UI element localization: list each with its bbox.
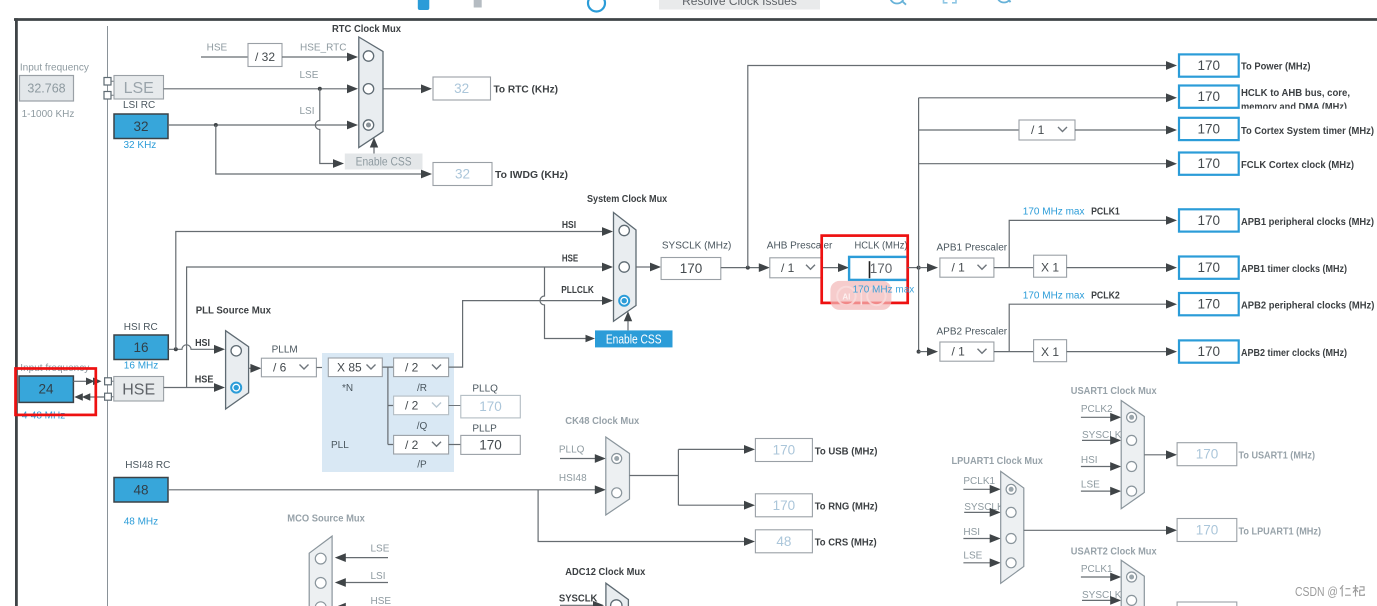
wire: HSI48 branch to CRS xyxy=(538,490,745,542)
svg-text:LSI: LSI xyxy=(300,106,315,117)
svg-text:HSE: HSE xyxy=(195,374,214,385)
output box: APB1 peripheral clocks xyxy=(1179,209,1239,231)
svg-text:HCLK to AHB bus, core,: HCLK to AHB bus, core, xyxy=(1241,88,1350,99)
svg-text:HSI: HSI xyxy=(562,220,576,231)
svg-text:PLLCLK: PLLCLK xyxy=(561,285,594,296)
wire: HSE pin to 24 box (in) xyxy=(88,396,105,398)
svg-text:170: 170 xyxy=(1198,156,1221,171)
svg-text:/ 6: / 6 xyxy=(273,361,287,375)
HCLK distribution riser xyxy=(918,98,920,352)
node: HCLK distribution xyxy=(917,266,921,270)
LSE pin square 1 xyxy=(104,78,111,86)
svg-text:To IWDG (KHz): To IWDG (KHz) xyxy=(495,170,568,181)
wire: HSI48 to CK48 mux xyxy=(168,489,596,491)
output box: To Power xyxy=(1179,54,1239,76)
svg-text:PLL Source Mux: PLL Source Mux xyxy=(196,306,272,317)
toolbar icon: zoom-out magnifier (cut off) xyxy=(890,0,904,4)
wire: LSI stub into MCO xyxy=(344,582,388,584)
svg-text:170: 170 xyxy=(773,498,796,513)
svg-text:SYSCLK (MHz): SYSCLK (MHz) xyxy=(662,241,731,252)
radio: LSI (selected, gray) xyxy=(363,120,373,130)
svg-text:/P: /P xyxy=(417,460,427,471)
wire: SYSCLK stub xyxy=(1082,439,1112,441)
svg-text:/ 1: / 1 xyxy=(781,261,795,275)
wire: APB2 out to X1 and PCLK2 branch xyxy=(994,304,1167,351)
wire: Enable CSS up into mux xyxy=(627,319,629,330)
node: SYSCLK distribution xyxy=(746,266,750,270)
mux: RTC Clock Mux xyxy=(359,37,383,148)
wire: HSI stub xyxy=(1081,466,1112,468)
svg-text:/ 2: / 2 xyxy=(405,399,419,413)
svg-text:PLLP: PLLP xyxy=(472,424,497,435)
input box: 24 xyxy=(19,376,73,402)
svg-text:HSE: HSE xyxy=(562,254,579,265)
wire: PLLM to *N xyxy=(316,367,328,369)
svg-text:48: 48 xyxy=(133,483,148,498)
mux: USART2 Clock Mux xyxy=(1121,560,1144,606)
oscillator LSI 32 xyxy=(114,114,168,139)
svg-text:HSI48 RC: HSI48 RC xyxy=(125,460,170,471)
svg-text:To RTC (KHz): To RTC (KHz) xyxy=(494,85,559,96)
svg-text:PLLQ: PLLQ xyxy=(472,384,498,395)
wire: PLLQ stub to CK48 mux xyxy=(560,458,596,460)
svg-text:170 MHz max: 170 MHz max xyxy=(1023,291,1085,302)
output box: To Cortex System timer xyxy=(1179,118,1239,140)
radio: HSE (off) xyxy=(619,262,629,272)
HSE pin square 1 xyxy=(105,378,112,385)
svg-text:LSE: LSE xyxy=(371,544,390,555)
radio: PCLK1 (selected, gray) xyxy=(1127,572,1137,582)
svg-text:APB2 peripheral clocks (MHz): APB2 peripheral clocks (MHz) xyxy=(1241,301,1374,312)
wire: CSS tap from HSE wire (hop over PLLCLK) xyxy=(540,267,587,339)
oscillator HSE xyxy=(114,377,164,402)
svg-text:24: 24 xyxy=(38,382,54,397)
svg-text:To LPUART1 (MHz): To LPUART1 (MHz) xyxy=(1239,527,1322,538)
output box: APB1 timer clocks xyxy=(1179,257,1239,279)
red issue rectangle (HSE input) xyxy=(16,369,96,415)
wire: HCLK to APB prescalers xyxy=(908,267,919,269)
wire: LSE to RTC mux xyxy=(164,88,349,90)
wire: AHB to HCLK input xyxy=(822,267,839,269)
svg-text:APB1 Prescaler: APB1 Prescaler xyxy=(937,243,1008,254)
svg-text:32.768: 32.768 xyxy=(27,82,65,96)
svg-text:170: 170 xyxy=(773,443,796,458)
output box: To USART1 xyxy=(1177,443,1237,466)
wire: USART1 mux output xyxy=(1144,454,1167,456)
mux: CK48 Clock Mux xyxy=(606,437,630,515)
svg-text:PLLQ: PLLQ xyxy=(559,445,585,456)
radio: LSE (off) xyxy=(1127,486,1137,496)
output box: PLLP xyxy=(461,435,521,454)
dropdown: APB1 /1 xyxy=(940,258,994,277)
svg-text:HSI: HSI xyxy=(195,338,210,349)
oscillator HSI48 xyxy=(114,478,168,503)
svg-text:To Cortex System timer (MHz): To Cortex System timer (MHz) xyxy=(1241,126,1374,137)
svg-text:HSI: HSI xyxy=(1081,455,1098,466)
svg-text:APB1 peripheral clocks (MHz): APB1 peripheral clocks (MHz) xyxy=(1241,217,1374,228)
svg-text:1-1000 KHz: 1-1000 KHz xyxy=(22,109,75,120)
svg-text:170: 170 xyxy=(1198,344,1221,359)
wire: SYSCLK stub into ADC12 xyxy=(560,604,594,606)
input box: 32.768 xyxy=(20,76,74,102)
svg-text:170: 170 xyxy=(1196,447,1219,462)
svg-text:PLL: PLL xyxy=(331,440,349,451)
wire: LSE branch down to Enable CSS (hop over LSI) xyxy=(315,89,333,164)
wire: HSI riser to System Clock Mux xyxy=(176,232,603,350)
radio: SYSCLK (off) xyxy=(1127,435,1137,445)
toolbar icon: fit-to-window (cut off) xyxy=(944,0,957,3)
svg-text:Enable CSS: Enable CSS xyxy=(356,155,412,169)
output box: To RNG xyxy=(755,494,812,517)
wire: RTC mux output to To RTC xyxy=(383,88,422,90)
svg-text:16: 16 xyxy=(133,340,148,355)
svg-text:Resolve Clock Issues: Resolve Clock Issues xyxy=(682,0,797,8)
svg-text:APB2 Prescaler: APB2 Prescaler xyxy=(937,327,1008,338)
svg-text:PCLK2: PCLK2 xyxy=(1081,404,1113,415)
svg-text:LSI: LSI xyxy=(371,571,386,582)
radio: SYSCLK (off) xyxy=(1006,507,1016,517)
svg-text:/ 1: / 1 xyxy=(952,261,966,275)
svg-text:/ 2: / 2 xyxy=(405,438,419,452)
output box: To USB xyxy=(755,439,812,462)
wire: riser to To Power xyxy=(748,66,1167,268)
wire: X1 to APB1 timer box xyxy=(1067,267,1167,269)
svg-text:X 1: X 1 xyxy=(1041,261,1059,275)
svg-text:LSE: LSE xyxy=(963,550,982,561)
PLL block background xyxy=(322,353,454,472)
svg-text:LSE: LSE xyxy=(1081,480,1100,491)
wire: HSI stub xyxy=(963,538,991,540)
button: Enable CSS (RTC, gray) xyxy=(345,154,423,170)
svg-text:To USART1 (MHz): To USART1 (MHz) xyxy=(1239,451,1316,462)
svg-text:170: 170 xyxy=(1198,58,1221,73)
svg-text:170: 170 xyxy=(1196,523,1219,538)
frame top border xyxy=(14,18,1377,21)
frame left border xyxy=(15,18,18,606)
svg-text:32: 32 xyxy=(133,119,148,134)
svg-text:PCLK1: PCLK1 xyxy=(1081,564,1113,575)
svg-text:AHB Prescaler: AHB Prescaler xyxy=(767,241,833,252)
svg-text:/ 32: / 32 xyxy=(255,50,275,64)
node: HSI branch xyxy=(174,347,178,351)
radio: PLLCLK (selected, blue) xyxy=(619,296,629,306)
red issue rectangle (HCLK) xyxy=(822,236,908,303)
radio: SYSCLK (off) xyxy=(1127,595,1137,605)
svg-text:170: 170 xyxy=(479,399,502,414)
oscillator LSE xyxy=(114,76,164,100)
input box: HCLK (active edit) xyxy=(849,257,908,280)
wire: SYSCLK stub xyxy=(964,511,991,513)
dropdown: *N X85 xyxy=(328,358,382,377)
svg-text:PLLM: PLLM xyxy=(272,345,298,356)
text cursor in HCLK box xyxy=(869,261,871,278)
svg-text:HSE_RTC: HSE_RTC xyxy=(300,43,347,54)
svg-text:HSI: HSI xyxy=(963,527,980,538)
svg-text:170 MHz max: 170 MHz max xyxy=(1023,207,1085,218)
svg-text:Input frequency: Input frequency xyxy=(20,63,89,74)
svg-text:PCLK1: PCLK1 xyxy=(1091,207,1120,218)
node: APB2 tap xyxy=(917,350,921,354)
svg-text:170: 170 xyxy=(1198,213,1221,228)
wire: PCLK1 stub xyxy=(963,488,991,490)
wire: LSE stub xyxy=(963,562,991,564)
radio: HSE_RTC (off) xyxy=(363,51,373,61)
svg-text:16 MHz: 16 MHz xyxy=(124,361,158,372)
toolbar icon: gray tool (cut off) xyxy=(474,0,482,8)
dropdown: /P xyxy=(394,435,449,454)
wire: PCLK1 stub xyxy=(1081,576,1112,578)
svg-text:System Clock Mux: System Clock Mux xyxy=(587,194,668,205)
svg-text:AI: AI xyxy=(842,293,850,302)
svg-text:32: 32 xyxy=(455,167,470,182)
mux: USART1 Clock Mux xyxy=(1121,401,1144,509)
svg-text:170: 170 xyxy=(1198,297,1221,312)
svg-text:USART1 Clock Mux: USART1 Clock Mux xyxy=(1071,386,1157,397)
output box: SYSCLK xyxy=(661,258,721,280)
dropdown: /Q (disabled) xyxy=(394,396,449,415)
wire: SYSCLK stub xyxy=(1082,599,1112,601)
svg-text:*N: *N xyxy=(342,383,353,394)
radio: HSI (off) xyxy=(231,346,241,356)
svg-text:HCLK (MHz): HCLK (MHz) xyxy=(855,241,908,252)
svg-text:170: 170 xyxy=(1198,89,1221,104)
svg-text:LSE: LSE xyxy=(300,70,319,81)
wire: SYSCLK to AHB prescaler xyxy=(721,267,760,269)
svg-text:CK48 Clock Mux: CK48 Clock Mux xyxy=(565,416,639,427)
wire+arrow: into APB2 prescaler xyxy=(919,351,928,353)
wire: HSI to PLL mux (hop over HSE riser) xyxy=(168,345,215,350)
output box: FCLK Cortex clock xyxy=(1179,153,1239,175)
dropdown: Cortex timer /1 xyxy=(1019,120,1075,140)
wire: /R to PLLCLK riser to System Clock Mux xyxy=(449,301,603,368)
node: LSE branch xyxy=(318,87,322,91)
dropdown: APB2 /1 xyxy=(940,342,994,361)
svg-text:LSE: LSE xyxy=(124,80,154,97)
wire: 24 box to HSE pin (out) xyxy=(73,380,88,382)
radio: HSI48 (off) xyxy=(612,488,622,498)
radio: PLLQ (selected, gray) xyxy=(612,454,622,464)
output box: PLLQ (disabled) xyxy=(461,395,521,418)
radio: MCO LSI (off) xyxy=(315,578,326,589)
radio: LSE (off) xyxy=(1006,558,1016,568)
HSE pin square 2 xyxy=(105,393,112,400)
wire: LSE stub into MCO xyxy=(344,557,388,559)
divider /32 xyxy=(248,44,282,67)
wire: LSI branch down to IWDG xyxy=(216,125,422,174)
svg-text:170: 170 xyxy=(1198,260,1221,275)
wire: PCLK2 stub xyxy=(1081,416,1112,418)
wire: APB1 out to X1 and PCLK1 branch xyxy=(994,220,1167,267)
output box: To LPUART1 xyxy=(1177,519,1237,542)
wire: HSE riser to System Clock Mux xyxy=(187,267,603,388)
wire: Cortex /1 to box xyxy=(1075,129,1167,131)
wire: sys mux output to SYSCLK box xyxy=(636,266,651,268)
svg-text:/R: /R xyxy=(417,383,427,394)
mux: PLL Source Mux xyxy=(226,331,249,409)
svg-text:/ 1: / 1 xyxy=(1031,123,1045,137)
svg-text:HSE: HSE xyxy=(122,382,155,399)
radio: HSE (selected, blue) xyxy=(231,383,241,393)
svg-text:X 85: X 85 xyxy=(337,361,362,375)
wire: to FCLK box xyxy=(919,163,1167,165)
svg-text:To CRS (MHz): To CRS (MHz) xyxy=(815,538,877,549)
dropdown: /R xyxy=(394,358,449,377)
svg-text:170 MHz max: 170 MHz max xyxy=(853,285,915,296)
svg-text:LPUART1 Clock Mux: LPUART1 Clock Mux xyxy=(952,456,1044,467)
radio: MCO HSE (off, partial) xyxy=(315,602,326,606)
svg-text:To Power (MHz): To Power (MHz) xyxy=(1241,62,1311,73)
svg-text:HSI48: HSI48 xyxy=(559,473,587,484)
svg-text:X 1: X 1 xyxy=(1041,345,1059,359)
svg-text:CSDN @: CSDN @ xyxy=(1295,585,1338,599)
svg-text:32 KHz: 32 KHz xyxy=(124,140,157,151)
svg-text:170: 170 xyxy=(870,261,893,276)
svg-text:To RNG (MHz): To RNG (MHz) xyxy=(815,502,878,513)
clock sources rail (vertical line) xyxy=(107,26,109,606)
multiplier: X1 (APB2 timers) xyxy=(1034,340,1067,362)
radio: HSI (off) xyxy=(619,225,629,235)
radio: ADC SYSCLK xyxy=(611,600,622,606)
mux: ADC12 Clock Mux xyxy=(606,583,629,606)
radio: HSI (off) xyxy=(1127,462,1137,472)
dropdown: PLLM /6 xyxy=(261,358,316,377)
wire: to HCLK AHB bus box xyxy=(919,97,1167,99)
output box: HCLK to AHB xyxy=(1179,86,1239,108)
svg-text:/ 1: / 1 xyxy=(952,345,966,359)
mux: MCO Source Mux (mirrored) xyxy=(309,536,332,606)
svg-text:170: 170 xyxy=(680,261,703,276)
toolbar button: Resolve Clock Issues (cut off) xyxy=(659,0,820,10)
svg-text:170: 170 xyxy=(479,438,502,453)
wire: CK48 output split to USB and RNG xyxy=(630,449,746,505)
wire: LSI to RTC mux xyxy=(168,124,348,126)
wire: HSE to PLL mux xyxy=(164,387,215,389)
LSE pin square 2 xyxy=(104,92,111,100)
output box: To IWDG xyxy=(433,163,492,186)
wire: X1 to APB2 timer box xyxy=(1067,351,1167,353)
wire: /Q to PLLQ box xyxy=(449,405,461,407)
svg-text:32: 32 xyxy=(454,81,469,96)
wire: X85 to /R and branch to /Q /P xyxy=(382,367,393,444)
svg-text:FCLK Cortex clock (MHz): FCLK Cortex clock (MHz) xyxy=(1241,160,1354,171)
toolbar icon: save (blue, cut off) xyxy=(418,0,430,10)
output box: APB2 peripheral clocks xyxy=(1179,293,1239,315)
svg-text:/Q: /Q xyxy=(417,421,428,432)
svg-text:RTC Clock Mux: RTC Clock Mux xyxy=(332,24,401,35)
mux: LPUART1 Clock Mux xyxy=(1001,471,1024,583)
wire: HSE pin stubs xyxy=(111,381,113,396)
radio: PCLK2 (selected, gray) xyxy=(1127,412,1137,422)
output box: To CRS xyxy=(755,530,812,553)
svg-text:ADC12 Clock Mux: ADC12 Clock Mux xyxy=(565,567,645,578)
wire: Enable CSS to RTC mux (up arrow) xyxy=(373,145,375,154)
svg-text:48 MHz: 48 MHz xyxy=(124,517,158,528)
radio: LSE (off) xyxy=(363,84,373,94)
svg-text:PCLK2: PCLK2 xyxy=(1091,291,1120,302)
wire: LPUART1 mux output xyxy=(1024,529,1167,531)
wire: LSE stub xyxy=(1081,490,1112,492)
radio: MCO LSE (off) xyxy=(315,553,326,564)
radio: HSI (off) xyxy=(1006,534,1016,544)
output box: To USART2 (partial) xyxy=(1177,602,1237,606)
wire+arrow: into APB1 prescaler xyxy=(919,267,928,269)
svg-text:Enable CSS: Enable CSS xyxy=(606,333,662,347)
wire: HSE stub to /32 xyxy=(201,56,248,58)
overlay: pink AI capture badge xyxy=(830,281,891,310)
mux: System Clock Mux xyxy=(614,213,637,322)
svg-text:MCO Source Mux: MCO Source Mux xyxy=(287,514,365,525)
multiplier: X1 (APB1 timers) xyxy=(1034,255,1067,277)
wire: LSE pin stubs xyxy=(111,81,114,95)
wire: /32 to RTC mux xyxy=(282,56,348,58)
svg-text:USART2 Clock Mux: USART2 Clock Mux xyxy=(1071,547,1157,558)
wire: PLL mux output to PLLM xyxy=(249,367,252,369)
radio: PCLK1 (selected, gray) xyxy=(1006,484,1016,494)
oscillator HSI 16 xyxy=(114,335,168,360)
svg-text:LSI RC: LSI RC xyxy=(123,100,155,111)
svg-text:HSE: HSE xyxy=(207,43,228,54)
output box: APB2 timer clocks xyxy=(1179,340,1239,362)
svg-text:/ 2: / 2 xyxy=(405,361,419,375)
svg-text:HSE: HSE xyxy=(371,596,392,606)
svg-text:HSI RC: HSI RC xyxy=(124,322,158,333)
node: LSI branch xyxy=(214,123,218,127)
button: Enable CSS (system, blue) xyxy=(595,330,673,347)
svg-text:170: 170 xyxy=(1198,122,1221,137)
svg-text:48: 48 xyxy=(776,534,791,549)
svg-text:SYSCLK: SYSCLK xyxy=(559,594,598,605)
svg-text:APB1 timer clocks (MHz): APB1 timer clocks (MHz) xyxy=(1241,264,1347,275)
toolbar icon: zoom-in magnifier (cut off) xyxy=(997,0,1011,3)
wire: /P to PLLP box xyxy=(449,444,461,446)
svg-text:APB2 timer clocks (MHz): APB2 timer clocks (MHz) xyxy=(1241,348,1347,359)
wire: to Cortex /1 prescaler xyxy=(919,129,1019,131)
output box: To RTC xyxy=(433,77,491,100)
toolbar icon: clock circle (cut off) xyxy=(588,0,605,12)
dropdown: AHB /1 xyxy=(770,258,822,278)
svg-text:To USB (MHz): To USB (MHz) xyxy=(815,447,878,458)
